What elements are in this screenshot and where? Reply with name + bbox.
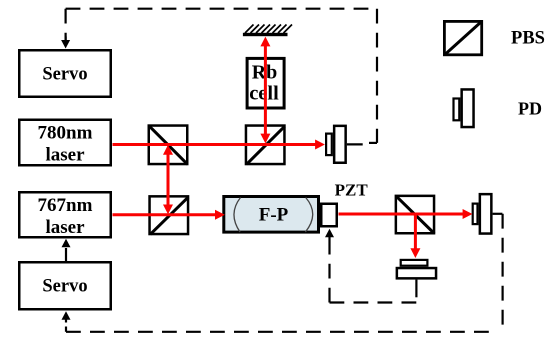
svg-text:Servo: Servo bbox=[42, 65, 87, 85]
svg-text:Servo: Servo bbox=[42, 277, 87, 297]
svg-text:PD: PD bbox=[518, 99, 542, 119]
svg-text:laser: laser bbox=[45, 217, 85, 238]
svg-text:780nm: 780nm bbox=[38, 122, 93, 143]
svg-text:F-P: F-P bbox=[259, 205, 289, 226]
svg-text:PZT: PZT bbox=[335, 181, 369, 200]
svg-text:laser: laser bbox=[45, 144, 85, 165]
svg-text:PBS: PBS bbox=[511, 28, 545, 48]
svg-text:767nm: 767nm bbox=[38, 195, 93, 216]
